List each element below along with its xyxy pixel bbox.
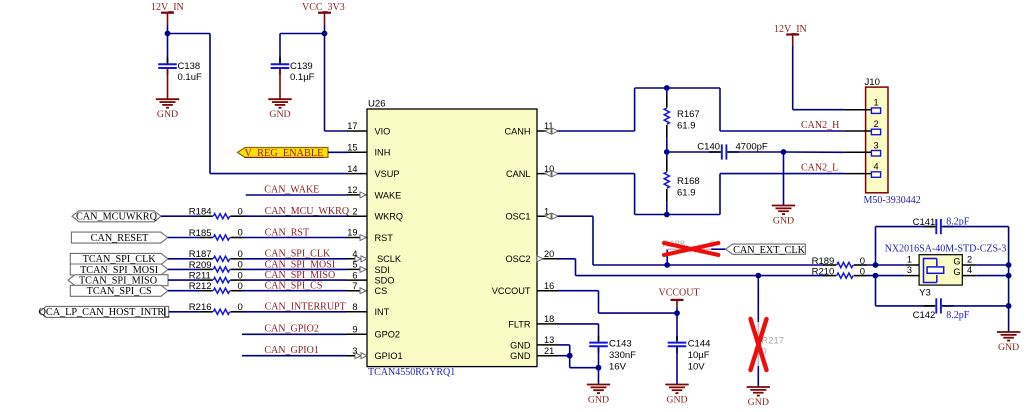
svg-text:8.2pF: 8.2pF — [946, 216, 970, 227]
svg-text:R167: R167 — [677, 109, 700, 120]
wire R189 to XTAL pin1 — [867, 264, 905, 266]
svg-text:TCAN4550RGYRQ1: TCAN4550RGYRQ1 — [368, 367, 455, 378]
wire net VCC_3V3 to VIO — [280, 34, 347, 132]
svg-text:10µF: 10µF — [688, 350, 710, 361]
pin 14 VSUP (U26 left) — [347, 164, 400, 179]
svg-text:4: 4 — [873, 162, 878, 172]
svg-text:INH: INH — [375, 148, 391, 158]
power flag VCC_3V3 — [302, 2, 345, 34]
wire net 12V_IN to J10 pin1 — [793, 46, 845, 110]
svg-text:CANH: CANH — [504, 126, 530, 136]
pin 1 (J10) — [844, 98, 880, 114]
svg-text:0.1µF: 0.1µF — [290, 72, 315, 83]
svg-text:4: 4 — [967, 265, 972, 275]
pin 13 GND (U26 right) — [510, 335, 557, 350]
svg-text:0: 0 — [238, 270, 243, 281]
crystal Y3 NX2016SA-40M-STD-CZS-3 — [885, 244, 1007, 299]
svg-text:SDO: SDO — [375, 276, 395, 286]
svg-text:CAN_MCUWKRQ: CAN_MCUWKRQ — [76, 212, 158, 223]
resistor R167 61.9 — [664, 88, 700, 152]
wire net CAN_SPI_MISO — [168, 279, 347, 281]
svg-text:VCC_3V3: VCC_3V3 — [302, 2, 345, 13]
svg-text:V_REG_ENABLE: V_REG_ENABLE — [245, 148, 324, 159]
junction OSC2 / R217 branch — [755, 273, 761, 279]
resistor R212 0 — [189, 281, 244, 293]
resistor R216 0 — [189, 302, 244, 314]
svg-text:GND: GND — [510, 340, 531, 350]
junction C140 / GND / J10 pin3 — [781, 149, 787, 155]
junction rail/pin4 — [1006, 273, 1012, 279]
resistor R188 0 (DNP, crossed out) — [663, 239, 726, 255]
connector J10 M50-3930442 — [864, 77, 921, 206]
resistor R184 0 — [189, 206, 244, 218]
svg-text:CAN_MCU_WKRQ: CAN_MCU_WKRQ — [265, 206, 350, 217]
svg-text:TCAN_SPI_CS: TCAN_SPI_CS — [87, 286, 152, 297]
ground GND (under C138) — [156, 68, 179, 120]
svg-text:1: 1 — [873, 98, 878, 108]
svg-text:GND: GND — [157, 109, 178, 120]
svg-text:CAN_SPI_MOSI: CAN_SPI_MOSI — [265, 259, 336, 270]
pin 4 (Y3) G — [953, 265, 976, 277]
pin 3 GPIO1 (U26 left) — [347, 346, 403, 361]
resistor R189 0 — [812, 256, 867, 268]
svg-text:G: G — [953, 256, 960, 266]
wire net FLTR (pin18) — [558, 324, 599, 341]
port QCA trailing bar — [164, 307, 166, 316]
junction C142 / XTAL pin3 — [873, 273, 879, 279]
svg-text:GPIO1: GPIO1 — [375, 351, 403, 361]
svg-text:C143: C143 — [609, 338, 632, 349]
svg-text:C142: C142 — [913, 310, 936, 321]
svg-text:16: 16 — [544, 281, 554, 291]
junction C141 / XTAL pin1 — [873, 262, 879, 268]
svg-text:R212: R212 — [189, 281, 212, 292]
ground GND (crystal) — [997, 332, 1020, 353]
svg-text:330nF: 330nF — [609, 350, 636, 361]
svg-text:C140: C140 — [697, 142, 720, 153]
svg-text:12V_IN: 12V_IN — [151, 2, 184, 13]
resistor R211 0 — [189, 270, 244, 282]
wire net VCCOUT (pin16) — [558, 291, 678, 313]
wire net CAN_INTERRUPT — [169, 311, 347, 313]
svg-text:14: 14 — [347, 164, 357, 174]
power flag VCCOUT — [659, 287, 700, 313]
capacitor C139 0.1uF — [271, 56, 315, 83]
svg-text:GND: GND — [510, 351, 531, 361]
svg-text:CAN_SPI_CS: CAN_SPI_CS — [265, 281, 323, 292]
svg-text:15: 15 — [347, 143, 357, 153]
svg-text:CAN_WAKE: CAN_WAKE — [264, 185, 319, 196]
svg-text:C141: C141 — [913, 217, 936, 228]
svg-text:0: 0 — [860, 266, 865, 277]
junction CANL / R168 bottom — [664, 212, 670, 218]
pin 2 (J10) — [844, 119, 880, 135]
pin 15 INH (U26 left) — [347, 143, 391, 158]
pin 18 FLTR (U26 right) — [508, 314, 557, 329]
pin 7 CS (U26 left) — [347, 281, 388, 296]
svg-text:R189: R189 — [812, 256, 835, 267]
svg-text:R216: R216 — [189, 302, 212, 313]
capacitor C141 8.2pF — [876, 216, 1009, 265]
wire net OSC2 (pin20 to R210/XTAL) — [558, 259, 825, 276]
svg-text:3: 3 — [907, 265, 912, 275]
pin 8 INT (U26 left) — [347, 302, 390, 317]
pin 3 (J10) — [844, 140, 880, 156]
junction C143 / GND pins — [596, 365, 602, 371]
svg-text:M50-3930442: M50-3930442 — [864, 195, 921, 206]
resistor R185 0 — [189, 228, 244, 240]
svg-text:CAN_EXT_CLK: CAN_EXT_CLK — [733, 245, 806, 256]
port TCAN_SPI_MISO — [68, 275, 168, 287]
svg-text:CS: CS — [375, 286, 388, 296]
pin 1 (Y3) — [905, 255, 919, 266]
svg-text:21: 21 — [544, 346, 554, 356]
svg-text:U26: U26 — [368, 99, 386, 110]
pin 2 (Y3) G — [953, 255, 976, 267]
svg-text:R217: R217 — [761, 335, 784, 346]
port TCAN_SPI_CLK — [70, 253, 168, 265]
svg-text:4700pF: 4700pF — [736, 142, 768, 153]
svg-text:GND: GND — [588, 394, 609, 405]
capacitor C143 330nF 16V — [589, 336, 636, 372]
pin 1 OSC1 (U26 right) — [505, 206, 558, 221]
svg-text:QCA_LP_CAN_HOST_INTR_: QCA_LP_CAN_HOST_INTR_ — [39, 307, 171, 318]
svg-text:VCCOUT: VCCOUT — [659, 287, 700, 298]
capacitor C138 0.1uF — [158, 34, 202, 84]
pin 4 (J10) — [844, 162, 880, 178]
svg-text:TCAN_SPI_MOSI: TCAN_SPI_MOSI — [80, 265, 159, 276]
ground GND (under C139) — [268, 68, 291, 120]
resistor R168 61.9 — [664, 152, 700, 215]
resistor R217 0 (DNP, crossed out) — [751, 276, 785, 387]
svg-text:R168: R168 — [677, 176, 700, 187]
net CAN_WAKE wire + label — [246, 185, 347, 196]
svg-text:61.9: 61.9 — [677, 121, 696, 132]
svg-text:CAN_SPI_MISO: CAN_SPI_MISO — [265, 270, 336, 281]
wire net CAN_SPI_MOSI — [168, 268, 347, 270]
svg-text:Y3: Y3 — [919, 288, 931, 299]
svg-text:5: 5 — [352, 260, 357, 270]
svg-text:VCCOUT: VCCOUT — [492, 286, 531, 296]
capacitor C144 10uF 10V — [668, 313, 711, 372]
port TCAN_SPI_MOSI — [70, 264, 168, 276]
svg-text:2: 2 — [873, 119, 878, 129]
junction VCC_3V3 / C139 — [322, 31, 328, 37]
op-amp/IC U26 TCAN4550RGYRQ1 body — [367, 99, 537, 379]
wire net OSC1 (pin1 to R189/XTAL) — [558, 216, 825, 265]
svg-text:CAN2_L: CAN2_L — [801, 162, 838, 173]
svg-text:CAN_INTERRUPT: CAN_INTERRUPT — [265, 302, 346, 313]
svg-text:20: 20 — [544, 249, 554, 259]
svg-text:9: 9 — [352, 325, 357, 335]
svg-text:FLTR: FLTR — [508, 319, 531, 329]
svg-text:SDI: SDI — [375, 265, 390, 275]
svg-text:0: 0 — [238, 228, 243, 239]
resistor R210 0 — [812, 266, 867, 278]
pin 2 WKRQ (U26 left) — [347, 206, 404, 221]
ground GND (under C143) — [587, 385, 610, 406]
junction rail/pin2 — [1006, 262, 1012, 268]
svg-text:61.9: 61.9 — [677, 188, 696, 199]
pin 10 CANL (U26 right) — [506, 164, 558, 179]
wire net CANH (pin11 to J10 pin2, over R167) — [558, 88, 845, 131]
net CAN_GPIO2 wire + label — [242, 324, 347, 335]
pin 19 RST (U26 left) — [347, 228, 394, 243]
svg-text:2: 2 — [967, 255, 972, 265]
svg-text:C144: C144 — [688, 338, 711, 349]
svg-text:0: 0 — [238, 281, 243, 292]
svg-text:2: 2 — [352, 206, 357, 216]
svg-text:OSC1: OSC1 — [505, 212, 530, 222]
svg-text:3: 3 — [873, 140, 878, 150]
junction CANH / R167 top — [664, 85, 670, 91]
ground GND (split termination) — [772, 152, 795, 226]
svg-text:0: 0 — [860, 256, 865, 267]
svg-text:CAN_RST: CAN_RST — [265, 227, 309, 238]
svg-text:GND: GND — [666, 394, 687, 405]
junction 12V_IN / C138 — [165, 31, 171, 37]
svg-text:C139: C139 — [290, 61, 313, 72]
pin 20 OSC2 (U26 right) — [505, 249, 557, 264]
wire net V_REG_ENABLE to INH — [328, 151, 347, 153]
junction rail/C142 — [1006, 303, 1012, 309]
svg-text:0.1uF: 0.1uF — [178, 72, 202, 83]
capacitor C140 4700pF — [667, 142, 784, 160]
svg-text:WKRQ: WKRQ — [375, 212, 404, 222]
svg-text:8: 8 — [352, 302, 357, 312]
svg-text:GND: GND — [269, 109, 290, 120]
wire XTAL pin2/pin4 to GND rail — [977, 265, 1009, 276]
svg-text:17: 17 — [347, 121, 357, 131]
svg-text:19: 19 — [347, 228, 357, 238]
pin 11 CANH (U26 right) — [504, 121, 558, 136]
svg-text:VSUP: VSUP — [375, 169, 400, 179]
port QCA_LP_CAN_HOST_INTR_ — [39, 306, 171, 318]
svg-text:R209: R209 — [189, 260, 212, 271]
svg-text:13: 13 — [544, 335, 554, 345]
svg-text:0: 0 — [238, 249, 243, 260]
svg-text:R210: R210 — [812, 266, 835, 277]
svg-text:R184: R184 — [189, 207, 212, 218]
port TCAN_SPI_CS — [70, 285, 168, 297]
svg-text:OSC2: OSC2 — [505, 254, 530, 264]
svg-text:8.2pF: 8.2pF — [946, 310, 970, 321]
junction GND pin13/21 — [567, 353, 573, 359]
pin 6 SDO (U26 left) — [347, 270, 395, 285]
svg-text:CAN_RESET: CAN_RESET — [91, 233, 150, 244]
svg-text:C138: C138 — [178, 61, 201, 72]
svg-text:G: G — [953, 267, 960, 277]
svg-text:0: 0 — [238, 206, 243, 217]
wire XTAL gnd rail (right vertical) — [1008, 227, 1010, 332]
pin 16 VCCOUT (U26 right) — [492, 281, 558, 296]
pin 17 VIO (U26 left) — [347, 121, 391, 136]
svg-text:INT: INT — [375, 307, 390, 317]
port V_REG_ENABLE (yellow) — [237, 148, 328, 160]
svg-text:6: 6 — [352, 270, 357, 280]
port CAN_RESET — [71, 232, 167, 244]
svg-text:CAN_GPIO1: CAN_GPIO1 — [264, 345, 318, 356]
port CAN_MCUWKRQ — [72, 211, 161, 223]
pin 3 (Y3) — [905, 265, 919, 275]
capacitor C142 8.2pF — [876, 276, 1009, 321]
power flag 12V_IN (right) — [774, 24, 807, 46]
svg-text:CANL: CANL — [506, 169, 531, 179]
wire net C140 to J10 pin3 — [784, 151, 845, 153]
svg-text:0: 0 — [238, 302, 243, 313]
svg-text:10V: 10V — [688, 361, 706, 372]
svg-text:GPO2: GPO2 — [375, 330, 401, 340]
wire R188 branch — [666, 249, 668, 265]
junction OSC1 / R188 branch — [664, 262, 670, 268]
svg-text:R185: R185 — [189, 228, 212, 239]
wire net CAN_SPI_CLK — [168, 258, 347, 260]
port CAN_EXT_CLK — [726, 244, 806, 256]
wire net CANL (pin10 to J10 pin4, under R168) — [558, 174, 845, 215]
svg-text:VIO: VIO — [375, 126, 391, 136]
wire net CAN_MCU_WKRQ — [161, 215, 347, 217]
wire R210 to XTAL pin3 — [867, 275, 905, 277]
svg-text:J10: J10 — [865, 77, 880, 88]
svg-text:CAN2_H: CAN2_H — [801, 120, 839, 131]
svg-text:GND: GND — [748, 397, 769, 407]
svg-text:16V: 16V — [609, 361, 627, 372]
pin 9 GPO2 (U26 left) — [347, 325, 401, 340]
svg-text:CAN_SPI_CLK: CAN_SPI_CLK — [265, 249, 331, 260]
junction VCCOUT / C144 — [674, 310, 680, 316]
wire net GND pins 13/21 — [558, 345, 599, 368]
net CAN_GPIO1 wire + label — [242, 345, 347, 356]
junction R167/R168/C140 split — [664, 149, 670, 155]
svg-text:12V_IN: 12V_IN — [774, 24, 807, 35]
pin 21 GND (U26 right) — [510, 346, 557, 361]
svg-text:R187: R187 — [189, 249, 212, 260]
pin 5 SDI (U26 left) — [347, 260, 390, 275]
svg-text:0: 0 — [238, 260, 243, 271]
svg-text:GND: GND — [773, 215, 794, 226]
svg-text:12: 12 — [347, 185, 357, 195]
ground GND (under C144) — [665, 346, 688, 405]
svg-text:18: 18 — [544, 314, 554, 324]
svg-text:1: 1 — [907, 255, 912, 265]
svg-text:NX2016SA-40M-STD-CZS-3: NX2016SA-40M-STD-CZS-3 — [885, 244, 1007, 255]
svg-text:CAN_GPIO2: CAN_GPIO2 — [264, 324, 318, 335]
svg-text:RST: RST — [375, 233, 394, 243]
svg-text:SCLK: SCLK — [377, 254, 402, 264]
resistor R209 0 — [189, 260, 244, 272]
power flag 12V_IN (top-left) — [151, 2, 184, 34]
svg-text:WAKE: WAKE — [375, 190, 402, 200]
wire net CAN_SPI_CS — [168, 290, 347, 292]
wire C143 bottom to GND — [598, 346, 600, 384]
svg-text:7: 7 — [352, 281, 357, 291]
resistor R187 0 — [189, 249, 244, 261]
svg-text:R211: R211 — [189, 271, 211, 282]
pin 4 SCLK (U26 left) — [347, 249, 402, 264]
wire net CAN_RST — [168, 237, 347, 239]
svg-text:GND: GND — [998, 342, 1019, 353]
ground GND (under R217) — [747, 387, 770, 408]
pin 12 WAKE (U26 left) — [347, 185, 402, 200]
wire net 12V_IN to VSUP — [168, 34, 347, 174]
